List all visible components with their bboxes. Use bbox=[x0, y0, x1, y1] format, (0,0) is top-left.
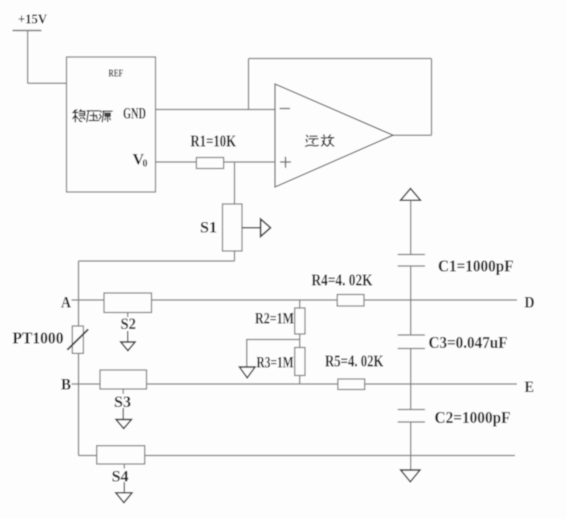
svg-text:R5=4. 02K: R5=4. 02K bbox=[325, 352, 384, 371]
resistor R2 bbox=[295, 308, 305, 334]
wire node A to node D bbox=[72, 299, 518, 301]
svg-text:S3: S3 bbox=[114, 394, 131, 411]
svg-text:R4=4. 02K: R4=4. 02K bbox=[312, 271, 373, 290]
op-amp inverting input marker bbox=[280, 108, 290, 110]
wire R3 bottom lead bbox=[299, 376, 301, 385]
S4 arrow bbox=[116, 493, 132, 503]
wire node B to node E bbox=[72, 383, 518, 385]
label 运放 (op-amp) bbox=[306, 135, 334, 146]
op-amp U2 triangle bbox=[275, 84, 393, 187]
thermistor PT1000 body bbox=[72, 326, 83, 353]
wire bottom bus bbox=[79, 455, 516, 457]
switch S4 bbox=[97, 446, 145, 464]
svg-text:0: 0 bbox=[143, 159, 148, 170]
label 稳压源 (regulator) bbox=[73, 110, 112, 122]
svg-text:PT1000: PT1000 bbox=[13, 329, 64, 348]
svg-text:D: D bbox=[525, 295, 535, 312]
svg-text:C2=1000pF: C2=1000pF bbox=[435, 408, 511, 427]
wire junction down to S1 bbox=[234, 162, 236, 204]
wire op-amp output bbox=[393, 134, 432, 136]
wire junction to ground arrow bbox=[247, 340, 300, 368]
wire C3 to C2 bbox=[410, 349, 412, 410]
wire +15V down bbox=[27, 31, 29, 84]
resistor R1 bbox=[196, 158, 223, 169]
wire left bus vertical bbox=[78, 261, 80, 456]
svg-text:R3=1M: R3=1M bbox=[257, 355, 294, 372]
svg-text:A: A bbox=[61, 295, 71, 312]
wire feedback left rise bbox=[248, 59, 250, 110]
wire S3 arrow lead bbox=[122, 408, 124, 420]
svg-text:C1=1000pF: C1=1000pF bbox=[438, 257, 514, 276]
S2 arrow bbox=[121, 342, 135, 351]
top arrow (up) of capacitor chain bbox=[401, 189, 421, 201]
wire cap chain top bbox=[410, 200, 412, 254]
wire C1 to C3 bbox=[410, 266, 412, 335]
svg-text:R2=1M: R2=1M bbox=[255, 311, 294, 328]
regulator U1 box bbox=[67, 57, 156, 192]
svg-text:+15V: +15V bbox=[18, 13, 47, 28]
capacitor C1 bbox=[398, 255, 425, 267]
wire C2 to bottom arrow bbox=[410, 422, 412, 470]
ground arrow at R2-R3 junction bbox=[239, 367, 255, 378]
bottom arrow (down) of capacitor chain bbox=[401, 470, 420, 482]
wire S1 wiper bbox=[242, 227, 261, 229]
resistor R4 bbox=[337, 295, 364, 307]
svg-text:B: B bbox=[61, 377, 71, 394]
op-amp non-inverting input marker bbox=[280, 157, 291, 168]
svg-text:R1=10K: R1=10K bbox=[191, 132, 237, 151]
wire S3 bottom lead bbox=[122, 389, 124, 394]
svg-text:GND: GND bbox=[123, 106, 146, 123]
capacitor C3 bbox=[398, 335, 425, 349]
wire R1 to op-amp non-inverting input bbox=[224, 161, 275, 163]
switch S2 bbox=[104, 293, 152, 313]
switch S3 bbox=[100, 370, 147, 389]
svg-text:S1: S1 bbox=[200, 220, 217, 237]
svg-text:C3=0.047uF: C3=0.047uF bbox=[429, 333, 508, 352]
wire R2 top lead bbox=[299, 300, 301, 308]
wire S2 arrow lead bbox=[127, 331, 129, 342]
wire +15V to regulator input bbox=[28, 82, 67, 84]
resistor R3 bbox=[295, 348, 305, 376]
wire GND pin to op-amp inverting input bbox=[156, 109, 276, 111]
resistor R5 bbox=[338, 379, 365, 390]
svg-text:E: E bbox=[525, 379, 535, 396]
wire R2-R3 junction bbox=[299, 334, 301, 348]
svg-text:S4: S4 bbox=[112, 469, 129, 486]
wire feedback right drop bbox=[431, 59, 433, 136]
wire S1 bottom lead bbox=[234, 251, 236, 261]
wire Vo pin to R1 bbox=[156, 161, 197, 163]
svg-text:S2: S2 bbox=[121, 316, 137, 333]
wire feedback top bbox=[249, 58, 432, 60]
thermistor PT1000 diagonal bbox=[67, 329, 88, 350]
S3 arrow bbox=[116, 420, 132, 429]
svg-text:REF: REF bbox=[109, 69, 124, 80]
S1 wiper arrow bbox=[261, 219, 271, 237]
wire S1 to left bus bbox=[79, 260, 235, 262]
potentiometer S1 bbox=[223, 204, 243, 251]
wire S2 bottom lead bbox=[127, 313, 129, 318]
capacitor C2 bbox=[398, 410, 425, 423]
power +15V rail bar bbox=[13, 30, 42, 32]
wire S4 arrow lead bbox=[123, 482, 125, 493]
wire S4 bottom lead bbox=[123, 464, 125, 469]
